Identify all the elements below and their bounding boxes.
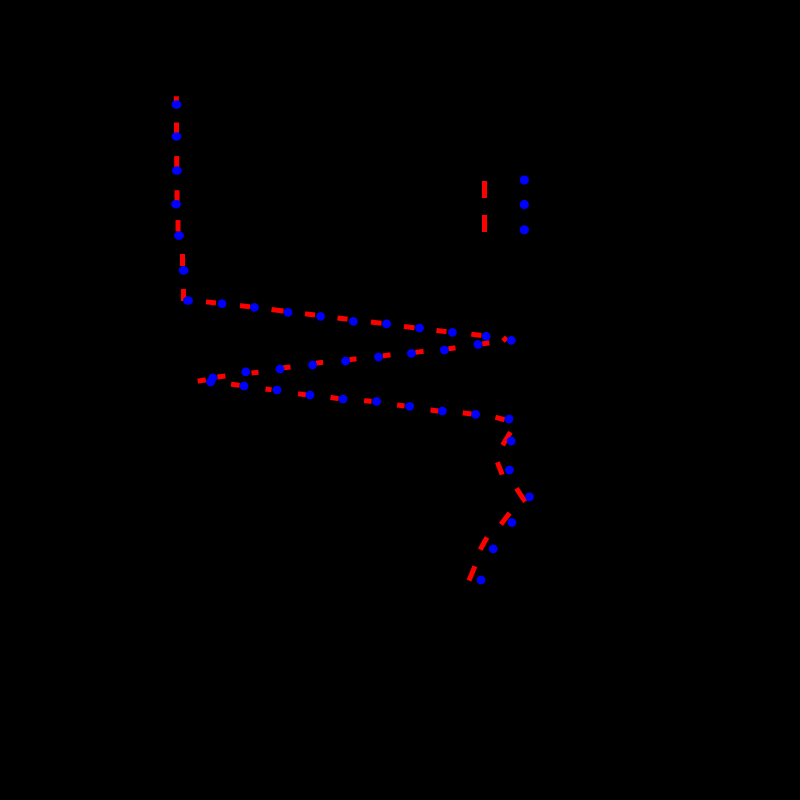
vertical section points xyxy=(172,100,182,109)
diagonal 1 dashes (left-to-right descending) xyxy=(206,302,216,303)
legend points xyxy=(520,175,529,184)
tail dashes xyxy=(503,432,511,445)
blue data points xyxy=(171,100,534,584)
diagonal 1 points xyxy=(218,299,227,308)
tail points xyxy=(507,437,516,446)
red dashed series line segments xyxy=(176,96,525,580)
left turn point pair xyxy=(208,374,217,383)
diagonal 3 points xyxy=(240,382,249,391)
diagonal 2 dashes (right-to-left descending) xyxy=(482,340,489,346)
legend line sample dashes xyxy=(482,181,487,198)
diagonal 2 points xyxy=(474,340,483,349)
bottom right corner point xyxy=(505,415,514,424)
right turn point xyxy=(507,336,516,345)
diagonal 3 dashes (left-to-right descending) xyxy=(231,384,239,385)
vertical section dashes xyxy=(174,96,179,101)
